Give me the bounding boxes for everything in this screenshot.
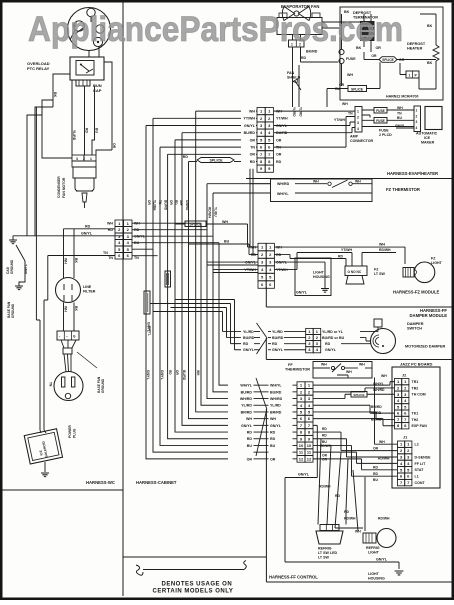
- svg-text:RD: RD: [373, 466, 378, 470]
- fuse (capillary): [339, 49, 344, 54]
- svg-text:DENOTES USAGE ON: DENOTES USAGE ON: [162, 582, 233, 588]
- wires connector to J2: [313, 382, 395, 386]
- svg-text:RD: RD: [276, 160, 282, 164]
- svg-text:LT SW LED: LT SW LED: [318, 551, 338, 555]
- svg-text:YL/RD: YL/RD: [241, 404, 252, 408]
- svg-text:BK: BK: [74, 258, 78, 263]
- connector evap 2x9: [257, 108, 265, 115]
- svg-text:BU/RD: BU/RD: [270, 390, 282, 394]
- damper feed wires: [175, 300, 241, 350]
- ice solenoid: [24, 429, 62, 464]
- svg-text:SPLICE: SPLICE: [189, 222, 202, 226]
- svg-text:RD: RD: [247, 437, 253, 441]
- svg-text:GN/YL: GN/YL: [160, 370, 164, 380]
- svg-text:2: 2: [83, 157, 85, 161]
- svg-text:WH: WH: [397, 106, 403, 110]
- svg-text:SPLICE: SPLICE: [210, 159, 224, 163]
- svg-text:TN: TN: [158, 200, 162, 205]
- power plug connector box: [57, 331, 79, 340]
- svg-text:PLUG: PLUG: [73, 428, 77, 438]
- svg-text:SPLICE: SPLICE: [382, 58, 394, 62]
- svg-text:WH: WH: [64, 306, 68, 312]
- svg-text:BR/RD: BR/RD: [241, 410, 253, 414]
- svg-text:RD/WH: RD/WH: [378, 517, 390, 521]
- splice lower: [348, 86, 367, 92]
- svg-text:BU/RD: BU/RD: [241, 390, 253, 394]
- svg-text:BK: BK: [427, 61, 433, 65]
- svg-text:AppliancePartsPros.com: AppliancePartsPros.com: [28, 10, 403, 49]
- splice RD: [197, 158, 234, 163]
- splice WH: [185, 221, 206, 227]
- svg-text:BK: BK: [74, 306, 78, 311]
- wires rows 4,5 to J2 6,7,8: [313, 405, 395, 413]
- splice OR: [379, 57, 397, 63]
- svg-text:LIGHT: LIGHT: [368, 551, 380, 555]
- power plug: [54, 372, 83, 401]
- connector P3 compressor: [72, 155, 84, 161]
- svg-text:LIGHT: LIGHT: [431, 261, 443, 265]
- icemaker connector strip: [414, 106, 421, 132]
- denotes-usage squiggle: [136, 561, 246, 576]
- svg-text:FAN MOTOR: FAN MOTOR: [62, 177, 66, 198]
- svg-text:WH: WH: [379, 243, 385, 247]
- svg-text:OR: OR: [147, 200, 151, 205]
- svg-text:GN/YL: GN/YL: [243, 348, 255, 352]
- svg-text:3: 3: [416, 120, 418, 124]
- wires down to refrig light assembly: [318, 439, 321, 525]
- svg-text:CONT: CONT: [415, 481, 426, 485]
- svg-text:GN/YL: GN/YL: [270, 424, 282, 428]
- svg-text:RD: RD: [174, 200, 178, 205]
- svg-text:FF: FF: [288, 363, 293, 367]
- svg-text:YL/RD: YL/RD: [72, 130, 76, 141]
- svg-text:PTC RELAY: PTC RELAY: [27, 66, 50, 71]
- svg-text:GN/YL: GN/YL: [146, 370, 150, 380]
- light housing box: [295, 258, 331, 296]
- harness bundle chevron: [256, 378, 267, 456]
- svg-text:WH/RD: WH/RD: [240, 397, 253, 401]
- wire WH to fz light: [274, 247, 405, 264]
- svg-text:WH: WH: [64, 258, 68, 264]
- svg-text:TN: TN: [103, 251, 108, 255]
- svg-text:TN: TN: [49, 382, 53, 387]
- wire middle section bottom line: [123, 556, 266, 558]
- svg-text:FUSE: FUSE: [376, 109, 385, 113]
- svg-text:~: ~: [66, 335, 68, 339]
- svg-text:TN: TN: [397, 112, 402, 116]
- wire evap/heater section line: [246, 178, 452, 180]
- svg-text:OR: OR: [371, 54, 377, 58]
- svg-text:WH/RD: WH/RD: [277, 182, 290, 186]
- svg-text:HARNESS-FZ MODULE: HARNESS-FZ MODULE: [393, 290, 440, 295]
- svg-text:WH: WH: [381, 374, 387, 378]
- wire BK to filter: [73, 229, 75, 278]
- svg-text:2: 2: [416, 114, 418, 118]
- svg-text:WH: WH: [342, 102, 348, 106]
- splice block vertical A: [165, 271, 171, 287]
- svg-text:1: 1: [409, 74, 411, 78]
- svg-text:RD: RD: [338, 254, 343, 258]
- svg-text:WH: WH: [379, 440, 385, 444]
- rows into connector: [254, 384, 269, 386]
- svg-text:1: 1: [90, 157, 92, 161]
- connector fz module 2x6: [258, 243, 266, 251]
- connector 1-P: [406, 71, 419, 78]
- svg-text:WH/YL: WH/YL: [270, 384, 282, 388]
- wire TN: [48, 255, 115, 257]
- jazz pc board box: [392, 367, 440, 488]
- wire GN/YL bus: [13, 235, 123, 237]
- svg-text:WH/RD: WH/RD: [270, 397, 283, 401]
- svg-text:4: 4: [357, 127, 359, 131]
- fz thermistor box: [271, 179, 373, 202]
- svg-text:GN/YL: GN/YL: [272, 348, 284, 352]
- wire harness tail + ff control bottom line: [266, 409, 451, 582]
- svg-text:GN/YL: GN/YL: [241, 424, 253, 428]
- fz light switch: [345, 266, 367, 276]
- svg-text:RD: RD: [272, 342, 278, 346]
- harness bundle damper: [257, 323, 268, 354]
- svg-text:2 PLCD: 2 PLCD: [379, 133, 392, 137]
- svg-text:BU/RD or BU: BU/RD or BU: [322, 336, 345, 340]
- svg-text:FILTER: FILTER: [83, 290, 96, 294]
- svg-text:LT SW: LT SW: [374, 272, 386, 276]
- svg-text:WH: WH: [179, 200, 183, 206]
- wire WH thermistor to J1: [375, 378, 398, 445]
- svg-text:RD/WH: RD/WH: [378, 457, 390, 461]
- svg-text:BU: BU: [335, 87, 340, 91]
- svg-text:HARNESS-EVAP/HEATER: HARNESS-EVAP/HEATER: [387, 171, 438, 176]
- svg-text:OR: OR: [250, 153, 256, 157]
- fz light bulb: [403, 268, 414, 278]
- wire RD/WH: [362, 253, 396, 267]
- svg-text:CONNECTOR: CONNECTOR: [350, 139, 373, 143]
- svg-text:YT/WH: YT/WH: [276, 117, 288, 121]
- svg-text:STAT: STAT: [415, 468, 425, 472]
- svg-text:HOUSING: HOUSING: [368, 577, 385, 581]
- svg-text:YL/RD or YL: YL/RD or YL: [322, 330, 344, 334]
- svg-text:YL/RD: YL/RD: [371, 411, 382, 415]
- ff thermistor box: [313, 362, 372, 379]
- connector J1: [398, 441, 405, 447]
- svg-text:FUSE: FUSE: [346, 57, 356, 61]
- svg-text:RD/WH: RD/WH: [319, 485, 331, 489]
- svg-text:BU: BU: [247, 444, 253, 448]
- svg-text:3: 3: [357, 121, 359, 125]
- svg-text:BU/RD: BU/RD: [243, 336, 255, 340]
- svg-text:FUSE: FUSE: [379, 129, 389, 133]
- svg-text:LIGHT: LIGHT: [368, 572, 380, 576]
- svg-text:L1: L1: [415, 475, 419, 479]
- svg-text:OR: OR: [112, 143, 116, 149]
- svg-text:REFRIG: REFRIG: [318, 547, 332, 551]
- svg-text:FF LIT: FF LIT: [415, 462, 427, 466]
- svg-text:TN: TN: [134, 256, 139, 260]
- connector damper 2x4: [306, 328, 314, 334]
- svg-text:DAMPER: DAMPER: [407, 322, 424, 326]
- svg-text:BU: BU: [95, 128, 99, 133]
- svg-text:12: 12: [299, 456, 304, 461]
- svg-text:RD: RD: [168, 370, 172, 375]
- wires evap connector to amp connector: [274, 110, 355, 112]
- svg-text:RD: RD: [85, 225, 91, 229]
- wire BK from overload: [42, 74, 72, 158]
- refrig light switch: [320, 525, 339, 531]
- ground ice solenoid: [44, 462, 46, 472]
- refrig light bulb: [363, 533, 376, 543]
- svg-text:CONDENSER: CONDENSER: [57, 176, 61, 198]
- svg-text:WH: WH: [222, 220, 228, 224]
- svg-text:FUSE: FUSE: [376, 119, 385, 123]
- svg-text:J1: J1: [403, 436, 407, 440]
- svg-text:RD/WH: RD/WH: [208, 207, 212, 218]
- svg-text:WH: WH: [321, 363, 327, 367]
- svg-text:OR: OR: [169, 200, 173, 205]
- connector evap fan 1-2: [289, 40, 305, 47]
- svg-text:YL/BU: YL/BU: [214, 207, 218, 217]
- defrost sub-box: [340, 7, 443, 100]
- svg-text:WH: WH: [355, 530, 361, 534]
- fz thermistor circuit: [295, 183, 327, 185]
- svg-text:WH: WH: [270, 417, 276, 421]
- svg-text:YL/RD: YL/RD: [270, 404, 281, 408]
- svg-text:-: -: [59, 335, 60, 339]
- svg-text:BU/RD: BU/RD: [164, 200, 168, 211]
- wire BK evap to defrost terminator: [322, 21, 360, 24]
- svg-text:GROUND: GROUND: [11, 303, 15, 318]
- svg-text:ICE: ICE: [424, 136, 431, 140]
- svg-text:RD: RD: [85, 128, 89, 133]
- svg-text:WH/YL: WH/YL: [240, 384, 252, 388]
- svg-text:YT/WH: YT/WH: [243, 117, 255, 121]
- svg-text:RD/WH: RD/WH: [379, 248, 391, 252]
- fuse boxes: [374, 108, 387, 114]
- svg-text:BU: BU: [224, 240, 230, 244]
- wire diagonal to base pan ground: [16, 245, 25, 286]
- ground base pan: [15, 286, 23, 290]
- svg-text:BK: BK: [427, 24, 433, 28]
- svg-text:RD: RD: [335, 494, 340, 498]
- svg-text:2: 2: [357, 115, 359, 119]
- wires fuses to icemaker: [362, 109, 414, 111]
- svg-text:RD: RD: [373, 472, 378, 476]
- svg-text:OR: OR: [276, 138, 282, 142]
- svg-text:3: 3: [76, 157, 78, 161]
- svg-text:OR: OR: [276, 153, 282, 157]
- wire fz/damper section line: [266, 287, 451, 307]
- amp connector: [355, 107, 362, 133]
- svg-text:10: 10: [307, 443, 312, 448]
- wire GN/YL to light housing ground: [285, 425, 399, 569]
- svg-text:MAKER: MAKER: [421, 141, 435, 145]
- svg-text:OR: OR: [373, 446, 379, 450]
- svg-text:GN/YL: GN/YL: [325, 348, 337, 352]
- wires WH/RD WH/YL into middle: [207, 183, 271, 185]
- svg-text:HEATER: HEATER: [407, 47, 423, 51]
- harness bus wires into evap connector: [196, 110, 241, 112]
- wires into fz module from middle: [250, 184, 258, 247]
- svg-text:SPLICE: SPLICE: [351, 87, 364, 91]
- svg-text:GN/YL: GN/YL: [24, 264, 28, 274]
- svg-text:BU/RD: BU/RD: [272, 336, 284, 340]
- splice WH/RD to J2: [351, 392, 367, 398]
- svg-text:HARNESS-WC: HARNESS-WC: [86, 480, 115, 485]
- wires label col to damper connector: [254, 330, 260, 332]
- svg-text:GN/YL: GN/YL: [296, 291, 308, 295]
- wires rows 8-12 to J1: [313, 432, 398, 451]
- svg-text:BU: BU: [397, 116, 402, 120]
- svg-text:HARN22 MCR/4700: HARN22 MCR/4700: [386, 95, 419, 99]
- svg-text:TR2: TR2: [412, 386, 419, 390]
- svg-text:D-SENSE: D-SENSE: [415, 455, 432, 459]
- svg-text:REFRIG: REFRIG: [366, 546, 380, 550]
- svg-text:WH: WH: [196, 370, 200, 376]
- svg-text:RD: RD: [322, 433, 327, 437]
- svg-text:AMP: AMP: [350, 135, 359, 139]
- svg-text:1: 1: [416, 109, 418, 113]
- svg-text:RD: RD: [270, 437, 276, 441]
- svg-text:TR1: TR1: [412, 380, 419, 384]
- svg-text:RD: RD: [243, 342, 249, 346]
- svg-text:RD: RD: [270, 430, 276, 434]
- svg-text:12: 12: [307, 456, 312, 461]
- svg-text:DEFROST: DEFROST: [407, 42, 426, 46]
- svg-text:GN/YL: GN/YL: [298, 473, 310, 477]
- svg-text:YL/RD: YL/RD: [243, 330, 254, 334]
- svg-text:BU: BU: [270, 444, 276, 448]
- svg-text:OR: OR: [322, 458, 328, 462]
- overload / PTC relay box: [70, 57, 104, 80]
- svg-text:BK/RD: BK/RD: [371, 417, 382, 421]
- svg-text:RD: RD: [250, 160, 256, 164]
- svg-text:TH2: TH2: [412, 418, 419, 422]
- svg-text:BR/RD: BR/RD: [270, 410, 282, 414]
- svg-text:SWITCH: SWITCH: [407, 327, 422, 331]
- svg-text:YL/RD: YL/RD: [292, 107, 296, 117]
- icemaker box: [425, 107, 442, 130]
- svg-text:GN/YL: GN/YL: [395, 124, 405, 128]
- svg-text:OR: OR: [339, 83, 345, 87]
- svg-text:YT/WH: YT/WH: [334, 118, 345, 122]
- svg-text:LIGHT: LIGHT: [313, 271, 325, 275]
- ground cab: [12, 236, 14, 240]
- svg-text:BK: BK: [53, 92, 57, 98]
- svg-text:GN/YL: GN/YL: [244, 124, 256, 128]
- svg-text:WH: WH: [249, 110, 255, 114]
- svg-text:LINE: LINE: [83, 285, 92, 289]
- svg-text:J2: J2: [402, 374, 406, 378]
- wire WH to filter: [63, 229, 65, 278]
- wire to ice solenoid: [36, 107, 40, 430]
- svg-text:RD: RD: [325, 342, 331, 346]
- svg-text:OR: OR: [250, 138, 256, 142]
- run capacitor: [76, 80, 90, 86]
- svg-text:WH: WH: [355, 179, 361, 183]
- svg-text:BU: BU: [373, 478, 378, 482]
- svg-text:O NO NC: O NO NC: [348, 270, 362, 274]
- svg-text:OR: OR: [247, 457, 253, 461]
- svg-text:YL/WH: YL/WH: [153, 200, 157, 211]
- ff thermistor circuit: [313, 367, 330, 369]
- splice block vertical B: [144, 291, 150, 314]
- svg-text:10: 10: [299, 443, 304, 448]
- svg-text:TK1: TK1: [412, 412, 419, 416]
- svg-text:SPLICE: SPLICE: [353, 393, 364, 397]
- svg-text:L2: L2: [415, 443, 419, 447]
- svg-text:YL/RD: YL/RD: [299, 107, 303, 117]
- svg-text:FAN: FAN: [287, 71, 295, 75]
- svg-text:HARNESS-FF CONTROL: HARNESS-FF CONTROL: [269, 575, 318, 580]
- svg-text:BU/RD: BU/RD: [244, 131, 256, 135]
- svg-text:GN/YL: GN/YL: [148, 326, 152, 336]
- wire RD to switch: [274, 255, 346, 266]
- svg-text:RD: RD: [344, 510, 349, 514]
- svg-text:JAZZ PC BOARD: JAZZ PC BOARD: [400, 362, 433, 367]
- wire YL/RD: [71, 80, 73, 155]
- svg-text:WH: WH: [107, 222, 113, 226]
- svg-text:MOTORIZED DAMPER: MOTORIZED DAMPER: [405, 345, 445, 349]
- svg-text:POWER: POWER: [68, 425, 72, 438]
- svg-text:DAMPER MODULE: DAMPER MODULE: [410, 313, 448, 318]
- middle harness vertical wires: [146, 126, 228, 459]
- wire BU: [92, 86, 95, 155]
- wires feeding FZ module connector: [207, 264, 258, 266]
- svg-text:RD: RD: [108, 228, 114, 232]
- svg-text:BU/RD: BU/RD: [182, 370, 186, 381]
- connector J2: [395, 379, 402, 385]
- svg-text:RD/WH: RD/WH: [344, 517, 356, 521]
- svg-text:THERMISTOR: THERMISTOR: [285, 368, 310, 372]
- wires into fz thermistor: [250, 169, 271, 184]
- base pan ground leader: [77, 352, 97, 368]
- svg-text:BK/RD: BK/RD: [306, 50, 318, 54]
- svg-text:TN: TN: [250, 146, 255, 150]
- svg-text:GN/RD: GN/RD: [185, 200, 189, 211]
- svg-text:TH COM: TH COM: [412, 393, 426, 397]
- compressor motor: [68, 8, 111, 51]
- svg-text:RD: RD: [301, 56, 306, 60]
- svg-text:RD: RD: [322, 427, 327, 431]
- svg-text:BU/RD: BU/RD: [371, 405, 382, 409]
- svg-text:TN: TN: [348, 112, 353, 116]
- motorized damper: [371, 329, 396, 354]
- svg-text:WH: WH: [313, 179, 319, 183]
- wire damper/jazz section line: [266, 338, 451, 360]
- wire left section bottom line: [3, 489, 124, 491]
- svg-text:EXP FAN: EXP FAN: [412, 424, 428, 428]
- svg-text:RD: RD: [247, 430, 253, 434]
- svg-text:OR: OR: [270, 457, 276, 461]
- svg-text:RD: RD: [183, 155, 189, 159]
- wire BK/RD, RD from fan connector: [292, 47, 294, 107]
- svg-text:YL/RD: YL/RD: [272, 330, 283, 334]
- svg-text:WH: WH: [246, 417, 252, 421]
- svg-text:WH: WH: [347, 73, 353, 77]
- svg-text:WH/YL: WH/YL: [277, 192, 289, 196]
- wire RD: [84, 86, 86, 155]
- svg-text:CERTAIN MODELS ONLY: CERTAIN MODELS ONLY: [153, 588, 234, 594]
- svg-text:1: 1: [357, 110, 359, 114]
- svg-text:AUTOMATIC: AUTOMATIC: [416, 132, 438, 136]
- svg-text:GROUND: GROUND: [101, 378, 105, 393]
- svg-text:HARNESS-CABINET: HARNESS-CABINET: [136, 480, 177, 485]
- wire OR: [104, 62, 112, 150]
- svg-text:WH: WH: [346, 370, 352, 374]
- svg-text:GROUND: GROUND: [10, 259, 14, 274]
- connector cabinet-wc 2x6: [115, 220, 124, 227]
- wire YT/WH to switch: [274, 253, 352, 270]
- svg-text:RD/WH: RD/WH: [320, 444, 332, 448]
